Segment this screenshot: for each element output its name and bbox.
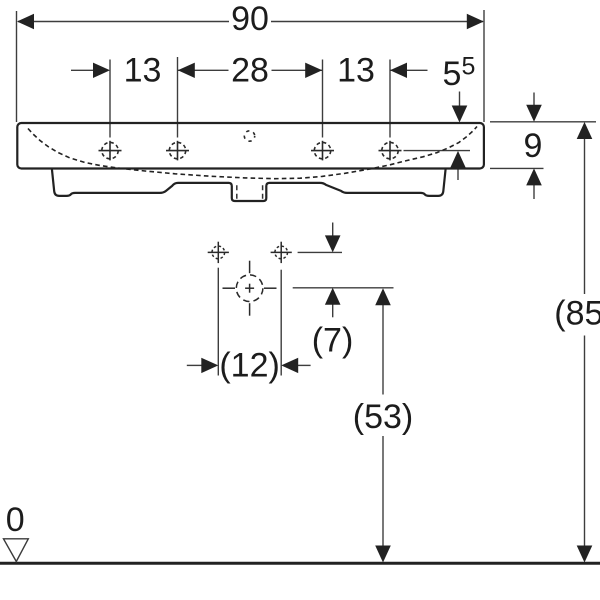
svg-text:(12): (12) — [219, 347, 279, 385]
svg-text:0: 0 — [6, 501, 25, 539]
svg-text:(85): (85) — [554, 295, 600, 333]
svg-text:9: 9 — [524, 127, 543, 165]
svg-text:5: 5 — [461, 53, 475, 81]
svg-text:28: 28 — [231, 51, 269, 89]
svg-text:13: 13 — [124, 51, 162, 89]
svg-text:(7): (7) — [312, 321, 354, 359]
svg-text:(53): (53) — [353, 398, 413, 436]
svg-text:5: 5 — [443, 55, 462, 93]
svg-text:13: 13 — [337, 51, 375, 89]
svg-text:90: 90 — [231, 0, 269, 38]
